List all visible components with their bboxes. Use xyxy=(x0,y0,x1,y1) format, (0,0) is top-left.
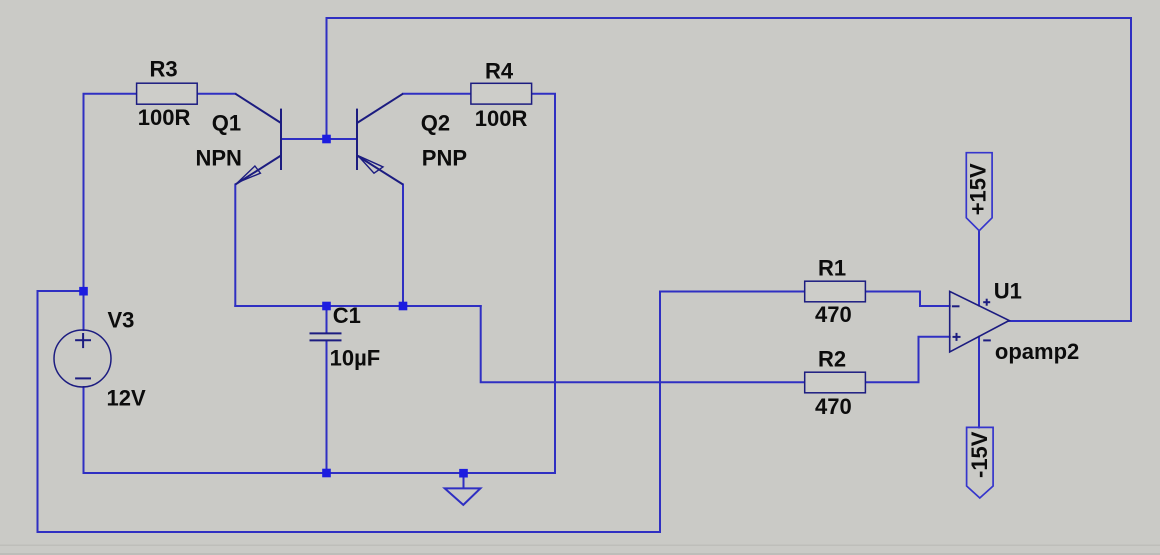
resistor R3 xyxy=(137,83,198,104)
node at C1 bottom xyxy=(322,469,331,478)
node at bases xyxy=(322,135,331,144)
resistor R4 xyxy=(471,83,532,104)
capacitor C1 xyxy=(310,333,342,340)
inverting input minus mark xyxy=(952,305,960,307)
non-inverting input plus mark xyxy=(953,336,961,338)
svg-text:R1: R1 xyxy=(818,256,846,281)
wire: Q1 emitter vertical xyxy=(234,185,236,307)
wire: emitter rail horizontal xyxy=(235,305,480,307)
ground xyxy=(445,488,481,505)
wire: emitter rail corner down to R2 level xyxy=(481,306,806,382)
node at ground xyxy=(459,469,468,478)
svg-text:10µF: 10µF xyxy=(330,345,381,370)
wire: C1 top lead xyxy=(326,306,328,333)
svg-text:+15V: +15V xyxy=(965,163,990,215)
svg-text:100R: 100R xyxy=(475,106,528,131)
svg-text:opamp2: opamp2 xyxy=(995,339,1079,364)
wire: V3 top lead xyxy=(83,291,85,330)
svg-text:470: 470 xyxy=(815,302,852,327)
svg-text:R2: R2 xyxy=(818,346,846,371)
wire: R3 left lead xyxy=(84,94,137,291)
wire: base rail Q1-Q2 xyxy=(281,138,357,140)
svg-text:U1: U1 xyxy=(994,279,1022,304)
svg-text:100R: 100R xyxy=(138,105,191,130)
node at Q2 emitter xyxy=(399,302,408,311)
svg-text:C1: C1 xyxy=(333,303,361,328)
wire: R3 right lead to Q1 collector xyxy=(197,93,235,95)
transistor Q2 (PNP) xyxy=(357,94,403,185)
transistor Q1 (NPN, mirrored) xyxy=(235,94,281,185)
resistor R1 xyxy=(805,281,866,302)
svg-text:Q1: Q1 xyxy=(212,110,241,135)
wire: R1 left lead xyxy=(660,291,806,293)
svg-text:V3: V3 xyxy=(108,307,135,332)
wire: R4 right lead down right side xyxy=(532,94,555,473)
svg-text:PNP: PNP xyxy=(422,146,467,171)
positive supply plus mark xyxy=(983,301,990,303)
wire: V3 bottom lead xyxy=(83,387,85,473)
wire: ground stub xyxy=(463,473,465,488)
svg-text:Q2: Q2 xyxy=(421,110,450,135)
negative supply minus mark xyxy=(983,339,991,341)
wire: Q2 collector to R4 left lead xyxy=(403,93,471,95)
voltage source V3 xyxy=(54,330,111,387)
svg-text:NPN: NPN xyxy=(196,146,242,171)
wire: R2 right lead to non-inverting input xyxy=(866,337,950,382)
svg-text:-15V: -15V xyxy=(967,431,992,478)
wire: vertical drop from top wire to base node xyxy=(326,18,328,139)
wire: op-amp positive supply xyxy=(978,231,980,306)
wire: right vertical (feedback down to op-amp output) xyxy=(1130,18,1132,321)
resistor R2 xyxy=(805,372,866,393)
wire: Q2 emitter vertical xyxy=(402,185,404,307)
window bottom edge line xyxy=(0,545,1160,546)
wire: outer left loop xyxy=(38,291,661,532)
wire: op-amp negative supply xyxy=(978,337,980,428)
svg-text:R3: R3 xyxy=(150,56,178,81)
flag +15V xyxy=(966,153,992,231)
wire: inner bottom horizontal xyxy=(84,472,556,474)
wire: op-amp output to right vertical xyxy=(1009,320,1131,322)
svg-text:12V: 12V xyxy=(107,386,146,411)
svg-text:R4: R4 xyxy=(485,58,514,83)
svg-text:470: 470 xyxy=(815,394,852,419)
flag -15V xyxy=(967,427,994,498)
wire: C1 bottom lead xyxy=(326,341,328,473)
op-amp U1 xyxy=(950,291,1010,352)
node at C1 top xyxy=(322,302,331,311)
wire: R1 right lead to inverting input xyxy=(866,292,950,307)
node at V3 top xyxy=(79,287,88,296)
wire: top horizontal (bases to output feedback) xyxy=(327,17,1132,19)
